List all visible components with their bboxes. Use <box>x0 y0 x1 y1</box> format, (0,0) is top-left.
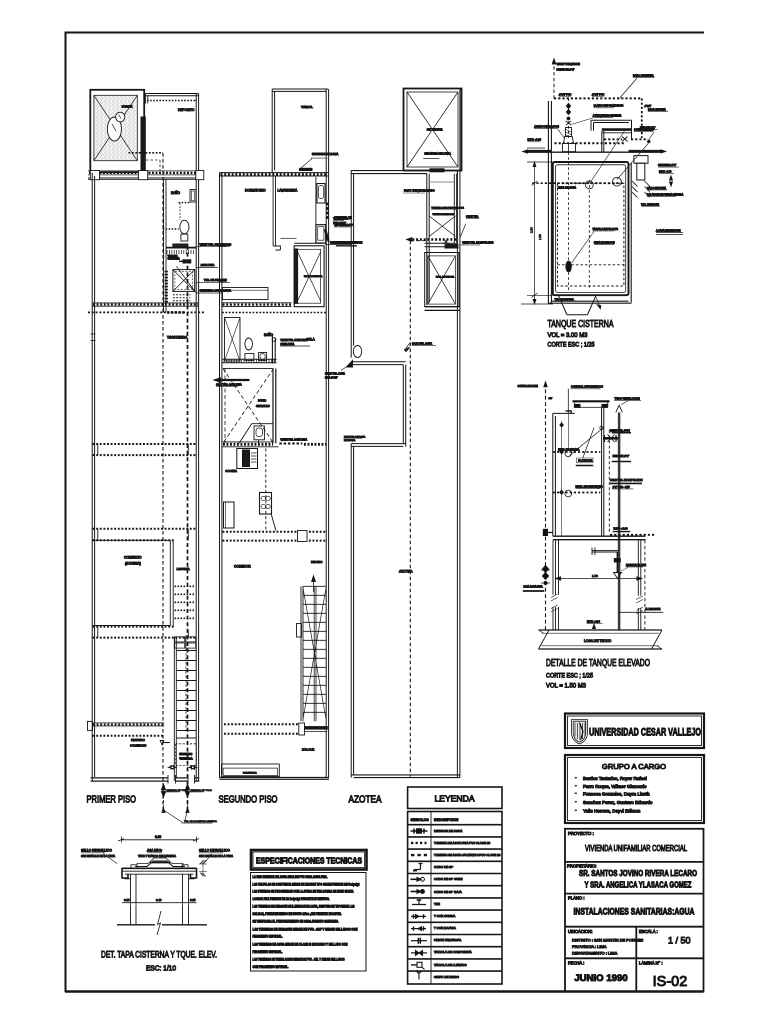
mid pipe label <box>406 343 410 349</box>
svg-text:LAS TUBERIAS DE DESAGUE SERAN: LAS TUBERIAS DE DESAGUE SERAN DE PVC . S… <box>253 927 359 931</box>
svg-text:CON PEGAMENTO ESPECIAL.: CON PEGAMENTO ESPECIAL. <box>253 965 289 969</box>
svg-text:TENDAL: TENDAL <box>301 105 313 109</box>
stairs 2nd floor <box>297 576 327 721</box>
room walls below slab with breaks <box>553 540 559 595</box>
kitchen top band <box>222 442 279 447</box>
svg-text:LOGRAR UNA PRESION DE 12 lbs/p: LOGRAR UNA PRESION DE 12 lbs/pulg2 DURAN… <box>253 897 330 901</box>
svg-text:CORTE ESC ; 1/25: CORTE ESC ; 1/25 <box>546 673 593 680</box>
agua fria dotted <box>411 842 427 844</box>
tablero / ducts mid <box>166 248 196 263</box>
svg-text:(BODEGA): (BODEGA) <box>125 562 141 566</box>
svg-text:VOL = 1.50 M3: VOL = 1.50 M3 <box>546 683 586 690</box>
rebose level dashed + valve X <box>604 138 648 140</box>
svg-text:SIN DETALLE DE LA TAPA: SIN DETALLE DE LA TAPA <box>81 854 115 858</box>
dimension line mid <box>122 902 197 904</box>
svg-text:VALVULA DE LLENADO: VALVULA DE LLENADO <box>434 963 467 967</box>
svg-text:COMERCIO: COMERCIO <box>124 556 142 560</box>
svg-text:DET. TAPA CISTERNA Y TQUE. ELE: DET. TAPA CISTERNA Y TQUE. ELEV. <box>101 949 217 960</box>
svg-text:GRIFO DE RIEGO: GRIFO DE RIEGO <box>434 975 460 979</box>
leader left of step <box>341 363 352 371</box>
svg-text:LLAVE CORPORATION 3/4: LLAVE CORPORATION 3/4 <box>594 105 624 108</box>
svg-text:BRECHA DE AIRE: BRECHA DE AIRE <box>626 564 646 567</box>
svg-text:Ø 3/4" PVC: Ø 3/4" PVC <box>559 94 572 97</box>
vent circle <box>353 346 361 358</box>
svg-text:0.40: 0.40 <box>156 898 162 902</box>
svg-text:TUB. DESAGUE: TUB. DESAGUE <box>641 203 659 206</box>
dimension 1.70 <box>556 578 642 580</box>
dashed water lines vertical <box>162 153 164 810</box>
right wall full <box>326 89 328 778</box>
codo sube <box>411 878 421 880</box>
svg-text:0.15: 0.15 <box>190 898 196 902</box>
svg-text:0.60: 0.60 <box>155 835 161 839</box>
header row <box>408 824 502 826</box>
lid trapezoid with handle <box>135 861 185 867</box>
svg-text:TUBERIA DE AGUA FRIA PVC CLASE: TUBERIA DE AGUA FRIA PVC CLASE 10 <box>434 841 491 845</box>
band y728 <box>88 721 93 730</box>
svg-text:SALIDAS, PERMANECIENDO EN DUCT: SALIDAS, PERMANECIENDO EN DUCTO 24hrs ,S… <box>253 912 342 916</box>
svg-text:SR. SANTOS JOVINO RIVERA LECAR: SR. SANTOS JOVINO RIVERA LECARO <box>579 868 697 878</box>
wall band below jardin <box>88 171 204 175</box>
pump <box>566 261 571 272</box>
svg-text:DEPARTAMENTO : LIMA: DEPARTAMENTO : LIMA <box>572 951 618 956</box>
svg-text:AZOTEA: AZOTEA <box>399 570 413 574</box>
lower X box (vestibule shaft) <box>425 253 461 311</box>
top X box (tendal roof) <box>404 89 462 172</box>
grupo a cargo box <box>565 755 704 823</box>
comb grating row <box>223 359 277 363</box>
svg-text:UNIVERSIDAD CESAR VALLEJO: UNIVERSIDAD CESAR VALLEJO <box>589 727 701 739</box>
svg-text:SUBE TUB.: SUBE TUB. <box>466 215 479 218</box>
svg-text:TUB. DE LIMPIEZA: TUB. DE LIMPIEZA <box>555 298 575 301</box>
parapet / cover right structure <box>591 120 632 122</box>
svg-text:DESCRIPCION: DESCRIPCION <box>434 818 459 822</box>
shower <box>592 550 618 552</box>
svg-text:VALVULA DE PIE Ø 3/4: VALVULA DE PIE Ø 3/4 <box>593 228 619 231</box>
svg-text:VOL = 3.00 M3: VOL = 3.00 M3 <box>548 332 588 339</box>
svg-text:UBICACION:: UBICACION: <box>568 929 592 934</box>
dim verticals and diamonds <box>561 421 563 536</box>
svg-text:SELLO HIDRAULICO: SELLO HIDRAULICO <box>81 849 112 853</box>
svg-text:Barrios Tantarico, Royer Rafae: Barrios Tantarico, Royer Rafael <box>583 776 647 781</box>
svg-text:VIENE TUB. DE: VIENE TUB. DE <box>335 216 353 219</box>
overflow right pipe + funnel <box>629 150 663 153</box>
tendal <box>272 89 338 173</box>
svg-text:DISTRITO : SAN MARTIN DE PORRE: DISTRITO : SAN MARTIN DE PORRES <box>572 938 644 943</box>
dormitorio closet <box>223 288 269 300</box>
deposito room <box>146 94 199 172</box>
band under dormitorio <box>222 303 292 307</box>
svg-text:3/4": 3/4" <box>549 398 553 400</box>
right wall <box>457 89 460 778</box>
svg-text:LAVANDERIA: LAVANDERIA <box>278 189 299 193</box>
svg-text:1.70: 1.70 <box>592 574 598 578</box>
especificaciones tecnicas <box>251 850 367 971</box>
svg-text:-: - <box>575 791 577 796</box>
agua caliente dashed <box>411 854 427 856</box>
sump bottom <box>630 163 632 303</box>
band y443 <box>93 443 197 445</box>
svg-text:SOBRECIMIENTO: SOBRECIMIENTO <box>634 129 654 132</box>
tee <box>412 900 426 905</box>
svg-text:-: - <box>575 783 577 788</box>
svg-text:SELLO HIDRAULICO: SELLO HIDRAULICO <box>199 849 230 853</box>
bottom band <box>351 775 460 778</box>
svg-text:FECHA :: FECHA : <box>568 961 584 966</box>
svg-text:NIVEL DE ARRANQUE: NIVEL DE ARRANQUE <box>576 485 603 489</box>
svg-text:Ø 3/4": Ø 3/4" <box>645 105 652 108</box>
below-plan arrows and ramp note <box>161 784 218 823</box>
svg-text:LAS TUBERIAS DE AGUA SERAN: LAS TUBERIAS DE AGUA SERAN DE CLASE 10 R… <box>253 942 349 946</box>
svg-text:IS-02: IS-02 <box>653 974 688 990</box>
valves on riser <box>543 566 549 573</box>
svg-text:LAS TUBERIAS DE VENTILACION SE: LAS TUBERIAS DE VENTILACION SERAN DE PVC… <box>253 957 345 961</box>
svg-text:BAJA AGUA FRIA: BAJA AGUA FRIA <box>524 585 544 588</box>
svg-text:N.P.T. +0.00: N.P.T. +0.00 <box>528 139 542 142</box>
small step blocks on slab <box>131 865 188 869</box>
svg-text:PARA LIMPIEZA: PARA LIMPIEZA <box>648 109 666 112</box>
svg-text:CODO DE 90° BAJA: CODO DE 90° BAJA <box>434 890 462 894</box>
tank column upper <box>403 174 466 306</box>
impulsion pipe down <box>618 412 621 630</box>
svg-text:UNION UNIVERSAL: UNION UNIVERSAL <box>434 938 462 942</box>
main cover slab: double lines <box>122 867 197 869</box>
medidor <box>411 830 428 832</box>
svg-text:AZOTEA: AZOTEA <box>349 795 382 806</box>
band y310 <box>92 303 198 306</box>
svg-text:SALE TUB. DE IMPULSION: SALE TUB. DE IMPULSION <box>610 478 643 482</box>
svg-text:DORMITORIO: DORMITORIO <box>245 189 266 193</box>
svg-text:CODO DE 90° SUBE: CODO DE 90° SUBE <box>434 877 462 881</box>
valvula compuerta <box>411 952 427 954</box>
svg-text:A TANQUE DE CISTERNA: A TANQUE DE CISTERNA <box>593 114 622 117</box>
top band <box>220 173 329 176</box>
bath 2nd floor <box>245 332 310 364</box>
tank body <box>553 162 629 295</box>
svg-text:T CON SUBIDA: T CON SUBIDA <box>434 914 455 918</box>
symbols column <box>411 829 428 980</box>
svg-text:PROY. TANQUE ELEVADO: PROY. TANQUE ELEVADO <box>404 190 435 193</box>
band y532 <box>223 531 326 533</box>
svg-text:-: - <box>575 799 577 804</box>
limpieza shaft <box>170 540 195 626</box>
svg-text:SELLO DE AGUA: SELLO DE AGUA <box>647 187 666 190</box>
t con subida <box>411 915 426 917</box>
band y724 <box>224 723 298 725</box>
bottom wall with openings <box>91 778 200 781</box>
svg-text:REGADERA DE LLUVIA: REGADERA DE LLUVIA <box>425 153 452 156</box>
svg-text:LEYENDA: LEYENDA <box>434 794 474 804</box>
svg-text:DE LLUVIA: DE LLUVIA <box>344 439 356 442</box>
svg-text:LA RED INTERIOR DE AGUA SERA D: LA RED INTERIOR DE AGUA SERA DE PVC PARA… <box>253 875 328 879</box>
page border frame <box>65 33 704 993</box>
svg-text:-: - <box>575 808 577 813</box>
svg-text:VIVIENDA UNIFAMILIAR COMERCIAL: VIVIENDA UNIFAMILIAR COMERCIAL <box>585 844 687 853</box>
svg-text:REBOSE Ø 2": REBOSE Ø 2" <box>613 454 630 458</box>
svg-text:LAS TUBERIAS DE DESAGUE SE LLE: LAS TUBERIAS DE DESAGUE SE LLENARAN DE A… <box>253 905 355 909</box>
svg-text:Y SRA. ANGELICA YLASACA GOMEZ: Y SRA. ANGELICA YLASACA GOMEZ <box>585 880 692 890</box>
main dashed riser <box>545 383 547 630</box>
shower X box <box>165 270 194 303</box>
left wall lower <box>351 444 353 778</box>
top slab line across <box>551 151 628 153</box>
svg-text:BALCON: BALCON <box>302 748 314 752</box>
right dashed <box>608 430 610 534</box>
svg-text:SUBE TUB. DE REBOSE: SUBE TUB. DE REBOSE <box>335 242 363 245</box>
svg-text:N.P.T. -1.70: N.P.T. -1.70 <box>659 171 672 174</box>
break zigzag <box>157 911 161 935</box>
pedestal on tank top <box>562 144 575 152</box>
float + suction verticals <box>568 152 570 292</box>
svg-text:DEPOSITO: DEPOSITO <box>178 108 195 112</box>
svg-text:VIENE TANQUE DE: VIENE TANQUE DE <box>557 62 581 66</box>
svg-text:Ø 1" PVC - SAP: Ø 1" PVC - SAP <box>613 486 631 489</box>
svg-text:Ø 3/4" PVC: Ø 3/4" PVC <box>592 94 605 97</box>
svg-text:1 / 50: 1 / 50 <box>668 936 691 946</box>
jardin hatched box <box>90 90 145 172</box>
inlet valve cluster <box>603 437 619 440</box>
svg-text:REJA DE REBOSE: REJA DE REBOSE <box>594 241 615 244</box>
svg-text:SUMIDERO AGUA LLUVIA: SUMIDERO AGUA LLUVIA <box>200 289 232 293</box>
balcony front <box>222 764 280 777</box>
svg-text:LAS PRUEBAS SE PROCEDERAN CON: LAS PRUEBAS SE PROCEDERAN CON LA AYUDA D… <box>253 889 355 893</box>
svg-text:VIVIENDA: VIVIENDA <box>179 757 192 761</box>
svg-text:DETALLE DE TANQUE ELEVADO: DETALLE DE TANQUE ELEVADO <box>546 658 650 669</box>
ingreso vivienda block <box>160 741 196 770</box>
svg-text:LAS VALVULAS DE COMPUERTA SERA: LAS VALVULAS DE COMPUERTA SERAN DE BRONC… <box>253 882 360 886</box>
pit left wall <box>548 101 551 304</box>
svg-text:2.50: 2.50 <box>530 227 534 233</box>
svg-text:JARDIN: JARDIN <box>122 105 133 109</box>
svg-text:Farro Roque, Wilmer Giancarlo: Farro Roque, Wilmer Giancarlo <box>583 784 647 789</box>
svg-text:AL DESAGUE: AL DESAGUE <box>645 608 661 611</box>
svg-text:NIVEL DE AGUA: NIVEL DE AGUA <box>558 186 577 189</box>
svg-text:BALANCIN DE PIEDRA PARTIDA: BALANCIN DE PIEDRA PARTIDA <box>647 193 684 196</box>
codo baja <box>411 891 421 893</box>
svg-text:TEE: TEE <box>434 902 440 906</box>
svg-text:Sanchez Perez, Gustavo Eduardo: Sanchez Perez, Gustavo Eduardo <box>583 800 653 805</box>
svg-text:GRUPO A CARGO: GRUPO A CARGO <box>602 762 666 771</box>
dimension line top <box>122 837 197 843</box>
sale tub arrow left <box>219 379 250 381</box>
codo 90 <box>415 863 423 870</box>
leader lines to labels right <box>196 246 230 248</box>
svg-text:SUBE TUB. AGUA: SUBE TUB. AGUA <box>325 373 345 376</box>
svg-text:VIENE TUB. DE IMPULSION: VIENE TUB. DE IMPULSION <box>462 242 493 245</box>
svg-text:LOSA DE TECHO: LOSA DE TECHO <box>584 639 612 643</box>
small X box left (closet) <box>225 318 241 362</box>
svg-text:FLOTADOR: FLOTADOR <box>578 459 592 463</box>
patio servicio dashed X <box>214 369 307 444</box>
svg-text:BAJA TUB. DE AGUA: BAJA TUB. DE AGUA <box>344 436 366 439</box>
svg-text:BAJA TUB. AGUA: BAJA TUB. AGUA <box>412 343 432 346</box>
band y530 <box>93 528 197 530</box>
left dimension line <box>521 162 553 304</box>
labels between segundo and azotea <box>334 219 351 221</box>
svg-text:1.50: 1.50 <box>538 234 542 240</box>
left wall full <box>92 173 94 782</box>
svg-text:PEGAMENTO ESPECIAL.: PEGAMENTO ESPECIAL. <box>253 950 283 954</box>
svg-text:TUB. DE ACOMETIDA GENERAL: TUB. DE ACOMETIDA GENERAL <box>184 820 218 823</box>
long dashed pipe <box>409 241 411 777</box>
incoming dashed feed from street <box>553 61 555 99</box>
svg-text:COMEDOR: COMEDOR <box>234 565 251 569</box>
svg-text:JUNIO 1990: JUNIO 1990 <box>574 973 627 984</box>
svg-text:ESPECIFICACIONES TECNICAS: ESPECIFICACIONES TECNICAS <box>256 857 362 866</box>
svg-text:CORTE ESC ; 1/25: CORTE ESC ; 1/25 <box>548 342 595 349</box>
float valve stack <box>568 98 570 138</box>
svg-text:TUBO VENTILACION: TUBO VENTILACION <box>615 396 640 400</box>
top band <box>351 171 462 174</box>
svg-text:TRASTIENDA: TRASTIENDA <box>167 336 188 340</box>
main data box <box>565 829 704 992</box>
tank body <box>553 412 575 414</box>
UCV shield logo <box>572 720 588 745</box>
svg-text:N.P.T. +4.00: N.P.T. +4.00 <box>587 620 601 623</box>
svg-text:PLANO :: PLANO : <box>568 896 585 901</box>
svg-text:ESC: 1/10: ESC: 1/10 <box>146 966 176 973</box>
det. tapa cisterna y tanque elevado <box>81 835 233 973</box>
inner dashed rect <box>557 183 624 286</box>
circles <box>585 181 593 189</box>
svg-text:PATIO: PATIO <box>258 399 267 403</box>
left wall full <box>220 173 222 778</box>
svg-text:FRIA Ø 1/2": FRIA Ø 1/2" <box>325 377 338 380</box>
svg-text:INGRESO: INGRESO <box>179 752 193 756</box>
lavanderia fixtures <box>315 177 317 244</box>
svg-text:ESCALA :: ESCALA : <box>639 929 658 934</box>
svg-text:HALL ASCENSOR: HALL ASCENSOR <box>304 275 323 278</box>
svg-text:ASA DE fe: ASA DE fe <box>147 849 162 853</box>
svg-text:VIENE TUB. AGUA FRIA: VIENE TUB. AGUA FRIA <box>280 339 307 342</box>
right wall full <box>196 94 198 782</box>
descriptions <box>434 829 501 979</box>
bath zone <box>163 180 232 313</box>
grifo de riego <box>417 971 422 979</box>
svg-text:SALA: SALA <box>307 338 316 342</box>
svg-text:COMERCIO: COMERCIO <box>130 744 147 748</box>
svg-text:RECIBO: RECIBO <box>311 560 323 564</box>
svg-text:SIN TECHAR: SIN TECHAR <box>427 127 443 131</box>
left riser fitting at slab <box>543 529 547 535</box>
svg-text:DRENAJE Ø 1": DRENAJE Ø 1" <box>557 68 575 72</box>
svg-text:CODO DE 90°: CODO DE 90° <box>434 865 454 869</box>
band y630 <box>93 626 174 628</box>
ground line <box>117 924 207 926</box>
left and right L brackets <box>122 868 128 878</box>
svg-text:A CAJA DE DESAGUE: A CAJA DE DESAGUE <box>656 229 681 232</box>
svg-text:BAÑO: BAÑO <box>171 190 181 195</box>
t con bajada <box>411 928 426 930</box>
svg-text:VIENE TUB. AGUA FRIA: VIENE TUB. AGUA FRIA <box>280 439 307 442</box>
svg-text:REGADERA DE LLUVIA: REGADERA DE LLUVIA <box>312 153 339 156</box>
logo box <box>565 714 704 749</box>
svg-text:SALE TUB. AGUA FRIA: SALE TUB. AGUA FRIA <box>216 384 242 387</box>
svg-text:AGUA POTABLE Ø 3/4: AGUA POTABLE Ø 3/4 <box>534 125 559 128</box>
svg-text:PROVINCIA : LIMA: PROVINCIA : LIMA <box>572 944 607 949</box>
union universal <box>411 940 427 942</box>
side walls down <box>131 874 137 903</box>
svg-text:IMPULSION Ø 1": IMPULSION Ø 1" <box>335 224 354 227</box>
row separators <box>408 837 502 971</box>
al desague <box>619 611 664 613</box>
svg-text:PROYECTO :: PROYECTO : <box>568 831 594 836</box>
svg-text:SE VERIFICARA EL FUNCIONAMIENT: SE VERIFICARA EL FUNCIONAMIENTO DE CADA … <box>253 920 339 924</box>
svg-text:BARANDILLA: BARANDILLA <box>243 772 257 775</box>
svg-text:TANQUE CISTERNA: TANQUE CISTERNA <box>548 319 614 330</box>
kitchen <box>224 449 276 531</box>
svg-text:TUBERIA DE AGUA CALIENTE CPVC: TUBERIA DE AGUA CALIENTE CPVC CLASE 10 <box>434 853 501 857</box>
title block <box>565 714 704 992</box>
arrows right small <box>199 861 207 877</box>
svg-text:INSTALACIONES SANITARIAS:AGUA: INSTALACIONES SANITARIAS:AGUA <box>574 907 695 918</box>
svg-text:MEDIDOR DE AGUA: MEDIDOR DE AGUA <box>434 829 462 833</box>
svg-text:0.15: 0.15 <box>124 898 130 902</box>
svg-text:VIENE TUB. DE SERVICIO: VIENE TUB. DE SERVICIO <box>200 242 232 246</box>
columns continue <box>131 906 189 925</box>
svg-text:SIMBOLOS: SIMBOLOS <box>411 818 430 822</box>
legend table LEYENDA <box>408 787 502 984</box>
svg-text:TAPA Y MARCO DE MADERA: TAPA Y MARCO DE MADERA <box>138 854 176 858</box>
svg-text:TUBERIA AGUA FRIA PVC Ø 3/4: TUBERIA AGUA FRIA PVC Ø 3/4 <box>431 207 464 210</box>
svg-text:SUMIDERO Ø 2": SUMIDERO Ø 2" <box>658 164 676 167</box>
stairs lower <box>174 635 196 781</box>
svg-text:T CON BAJADA: T CON BAJADA <box>434 926 456 930</box>
svg-text:COCINA: COCINA <box>225 469 237 473</box>
svg-text:VALVULA DE COMPUERTA: VALVULA DE COMPUERTA <box>434 950 472 954</box>
svg-text:-: - <box>575 775 577 780</box>
svg-text:INGRESO: INGRESO <box>131 738 146 742</box>
step wall <box>351 362 406 365</box>
svg-text:MEDIDOR 1/2" PULG: MEDIDOR 1/2" PULG <box>191 790 213 792</box>
leader labels right of lavanderia <box>333 220 344 222</box>
slab under tank <box>553 536 646 540</box>
float arm diagonals <box>570 427 604 458</box>
valvula de llenado <box>411 964 417 966</box>
svg-text:PRIMER PISO: PRIMER PISO <box>87 795 137 806</box>
svg-text:CONTROL AUTOMATICOS: CONTROL AUTOMATICOS <box>571 385 603 389</box>
left wall upper <box>351 171 353 358</box>
svg-text:PARA CISTERNA: PARA CISTERNA <box>633 74 654 78</box>
water levels bold dotted <box>553 451 601 453</box>
svg-text:HALL ASCENSOR: HALL ASCENSOR <box>436 276 455 279</box>
svg-text:CAMARA DE AIRE: CAMARA DE AIRE <box>518 385 539 388</box>
svg-text:TUB. DE SUCCION: TUB. DE SUCCION <box>204 278 227 282</box>
svg-text:AGUA FRIA: AGUA FRIA <box>201 263 215 267</box>
svg-text:N.P.T. +6.00: N.P.T. +6.00 <box>614 527 629 531</box>
dividing wall dormitorio/lavanderia <box>273 176 275 246</box>
svg-text:PEGAMENTO ESPECIAL.: PEGAMENTO ESPECIAL. <box>253 935 283 939</box>
elevator X box <box>294 243 324 306</box>
svg-text:SIN DETALLE DE LA TAPA: SIN DETALLE DE LA TAPA <box>199 854 233 858</box>
svg-text:MEDIDOR 1/2" PULG: MEDIDOR 1/2" PULG <box>167 790 189 792</box>
svg-text:Yalle Herrera, Deyvi Erikson: Yalle Herrera, Deyvi Erikson <box>583 809 641 814</box>
svg-text:LIMPIEZA: LIMPIEZA <box>177 567 190 571</box>
losa de techo band <box>539 630 663 649</box>
svg-text:SEGUNDO PISO: SEGUNDO PISO <box>219 795 278 806</box>
svg-text:Fonseca Gonzales, Dayra Lizeth: Fonseca Gonzales, Dayra Lizeth <box>583 792 650 797</box>
svg-text:CISTERNA: CISTERNA <box>168 258 180 261</box>
tank lid <box>573 400 610 402</box>
svg-text:LAMINA N° :: LAMINA N° : <box>639 961 663 966</box>
svg-text:SUBE AGUA: SUBE AGUA <box>280 343 294 346</box>
svg-text:SERVICIO: SERVICIO <box>256 404 271 408</box>
svg-text:TUBERIA DE REBOSE: TUBERIA DE REBOSE <box>433 213 455 216</box>
